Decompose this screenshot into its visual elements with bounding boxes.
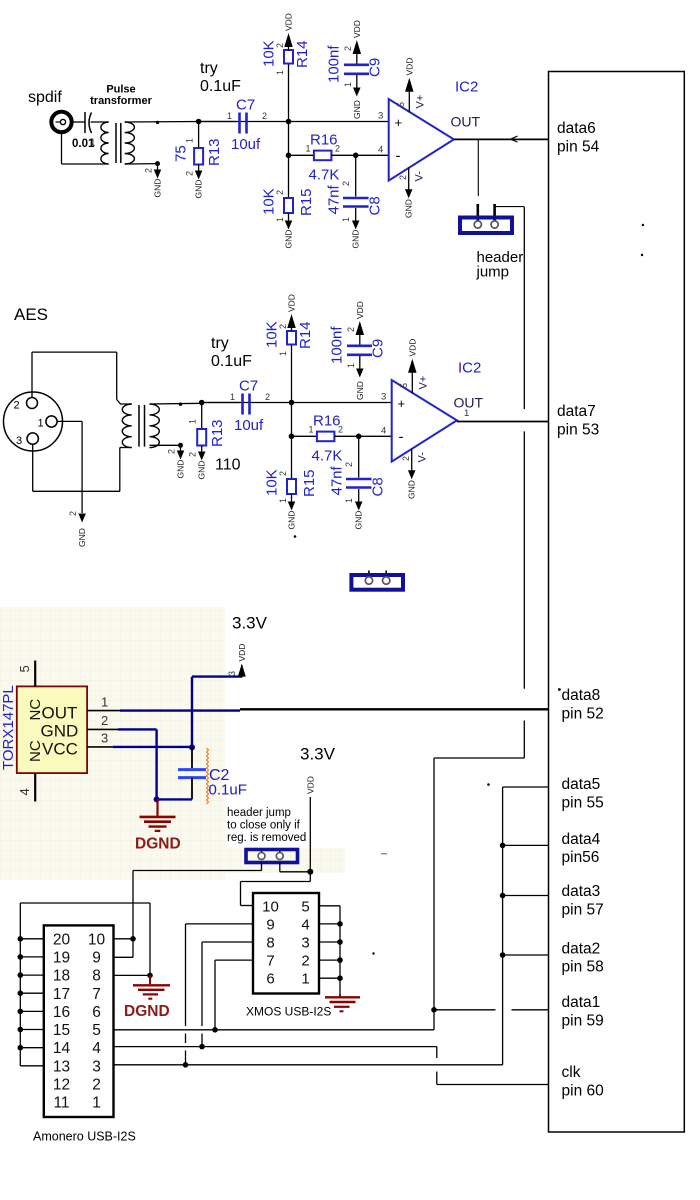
svg-text:VDD: VDD xyxy=(287,294,297,312)
svg-text:C8: C8 xyxy=(367,196,384,215)
svg-text:2: 2 xyxy=(167,449,177,454)
svg-text:try: try xyxy=(211,335,229,352)
svg-text:data3: data3 xyxy=(562,883,601,900)
svg-text:R16: R16 xyxy=(313,413,341,430)
node: data3 junction xyxy=(500,893,506,899)
svg-text:pin 55: pin 55 xyxy=(562,795,604,812)
svg-text:2: 2 xyxy=(144,168,154,173)
svg-text:6: 6 xyxy=(92,1004,101,1021)
svg-text:DGND: DGND xyxy=(135,836,181,853)
wire: left bus to DGND xyxy=(114,903,151,975)
svg-text:IC2: IC2 xyxy=(458,360,481,377)
svg-text:10K: 10K xyxy=(261,188,278,215)
node: R13 tap junction xyxy=(196,119,202,125)
svg-text:4: 4 xyxy=(301,916,309,933)
svg-text:1: 1 xyxy=(346,363,356,368)
wire: header right pin to VDD node xyxy=(280,863,311,872)
svg-text:2: 2 xyxy=(262,111,267,121)
node: XMOS pin9 junction xyxy=(183,1062,189,1068)
wire: Amonero pin5 row to data1 riser xyxy=(114,1029,435,1031)
header jump HDR2 (spare) xyxy=(351,571,403,590)
svg-text:4: 4 xyxy=(17,788,32,795)
resistor R15 10K xyxy=(261,155,316,248)
svg-text:VDD: VDD xyxy=(407,339,417,357)
wire: transformer secondary bottom to GND xyxy=(125,161,163,197)
svg-text:10K: 10K xyxy=(261,40,278,67)
svg-text:OUT: OUT xyxy=(451,114,481,130)
svg-text:VDD: VDD xyxy=(355,301,365,319)
svg-text:4: 4 xyxy=(378,144,383,155)
wire: VDD node to XMOS pin10 xyxy=(241,872,311,906)
svg-text:9: 9 xyxy=(266,916,274,933)
svg-text:GND: GND xyxy=(197,461,207,480)
svg-text:2: 2 xyxy=(335,144,340,154)
svg-text:10uf: 10uf xyxy=(231,136,261,153)
svg-text:GND: GND xyxy=(287,511,297,530)
wire: TORX pin3 VCC to 3.3V xyxy=(87,677,242,748)
svg-text:15: 15 xyxy=(53,1022,70,1039)
svg-text:100nf: 100nf xyxy=(329,326,346,364)
error squiggle (orange) xyxy=(207,748,209,804)
svg-text:C9: C9 xyxy=(370,339,387,358)
svg-text:jump: jump xyxy=(476,264,510,281)
svg-text:VDD: VDD xyxy=(404,58,414,76)
svg-text:4: 4 xyxy=(381,425,386,436)
svg-text:16: 16 xyxy=(53,1004,70,1021)
svg-text:R13: R13 xyxy=(206,138,223,166)
svg-text:7: 7 xyxy=(92,986,101,1003)
svg-text:IC2: IC2 xyxy=(455,79,478,96)
wire: header left pin to Amonero pins 10/9 xyxy=(114,863,262,958)
svg-text:2: 2 xyxy=(338,425,343,435)
svg-text:data4: data4 xyxy=(562,831,601,848)
svg-text:-: - xyxy=(396,148,401,165)
svg-text:14: 14 xyxy=(53,1040,71,1057)
svg-text:5: 5 xyxy=(301,898,309,915)
svg-text:2: 2 xyxy=(401,456,411,461)
svg-text:C7: C7 xyxy=(236,97,255,114)
svg-text:1: 1 xyxy=(275,70,285,75)
RCA connector J1 xyxy=(51,112,71,132)
svg-text:pin 59: pin 59 xyxy=(562,1013,604,1030)
svg-text:3: 3 xyxy=(378,110,383,121)
svg-text:10uf: 10uf xyxy=(234,417,264,434)
svg-text:TORX147PL: TORX147PL xyxy=(0,685,17,770)
wire: RCA ground return xyxy=(62,132,109,164)
svg-text:3: 3 xyxy=(381,391,386,402)
op-amp IC2 xyxy=(381,339,484,499)
svg-text:1: 1 xyxy=(275,217,285,222)
svg-text:10: 10 xyxy=(88,931,106,948)
svg-text:7: 7 xyxy=(266,953,274,970)
svg-text:0.1uF: 0.1uF xyxy=(211,353,252,370)
svg-text:2: 2 xyxy=(343,46,353,51)
wire: C2 bottom to DGND xyxy=(157,798,192,800)
svg-text:+: + xyxy=(398,396,406,411)
svg-text:3: 3 xyxy=(301,935,309,952)
svg-text:C8: C8 xyxy=(370,477,387,496)
svg-text:V+: V+ xyxy=(418,376,430,390)
wire: XMOS pins 1-5 tie to ground xyxy=(319,906,343,995)
svg-text:5: 5 xyxy=(399,383,409,388)
svg-text:pin 54: pin 54 xyxy=(557,139,600,156)
node: VCC/C2 junction xyxy=(189,744,195,750)
svg-text:data5: data5 xyxy=(562,776,601,793)
svg-text:3: 3 xyxy=(16,435,22,447)
wire: XMOS pin8 to Amonero pin4 row xyxy=(202,942,253,1047)
svg-text:GND: GND xyxy=(352,100,362,119)
wire: transformer secondary top xyxy=(125,121,199,124)
ground DGND (Amonero) xyxy=(124,975,170,1020)
svg-text:1: 1 xyxy=(341,217,351,222)
wire: cap to transformer xyxy=(91,121,109,123)
wire: net from spdif header down right side xyxy=(434,207,524,1030)
capacitor C2 0.1uF xyxy=(178,747,247,799)
svg-text:R14: R14 xyxy=(297,321,314,349)
node: R13 tap junction xyxy=(199,400,205,406)
svg-text:R14: R14 xyxy=(294,40,311,68)
svg-text:18: 18 xyxy=(53,968,70,985)
svg-text:8: 8 xyxy=(92,968,101,985)
svg-text:5: 5 xyxy=(17,665,32,672)
svg-text:1: 1 xyxy=(227,111,232,121)
svg-text:2: 2 xyxy=(92,1077,101,1094)
capacitor C7 xyxy=(202,378,270,435)
svg-text:GND: GND xyxy=(351,230,361,249)
ground arrow: XLR shield xyxy=(68,491,87,547)
svg-text:GND: GND xyxy=(354,511,364,530)
svg-text:Pulse: Pulse xyxy=(106,84,135,96)
svg-text:VDD: VDD xyxy=(305,776,315,794)
svg-text:data1: data1 xyxy=(562,994,601,1011)
svg-text:6: 6 xyxy=(266,971,274,988)
resistor R13 75 xyxy=(173,122,224,199)
svg-text:pin56: pin56 xyxy=(562,849,600,866)
svg-text:1: 1 xyxy=(90,138,96,149)
pulse transformer T2 xyxy=(122,404,159,448)
stray marks xyxy=(294,224,644,955)
svg-text:1: 1 xyxy=(188,419,198,424)
wire: op-amp output xyxy=(457,421,549,423)
module U4 XMOS USB-I2S xyxy=(253,893,319,994)
svg-text:3: 3 xyxy=(227,671,237,676)
node: R16/C8 junction xyxy=(356,434,362,440)
wire: data1 to pin 59 xyxy=(434,1009,549,1011)
svg-text:1: 1 xyxy=(306,144,311,154)
wire: XMOS pin9 to Amonero pin3 row xyxy=(186,924,254,1065)
pulse transformer T1 xyxy=(90,122,134,164)
ground DGND (TORX) xyxy=(135,799,181,852)
svg-text:-: - xyxy=(399,429,404,446)
svg-text:R15: R15 xyxy=(301,469,318,497)
svg-text:GND: GND xyxy=(407,480,417,499)
svg-text:GND: GND xyxy=(284,230,294,249)
arrow mark on data6 wire xyxy=(511,136,518,142)
svg-text:2: 2 xyxy=(185,171,195,176)
svg-text:12: 12 xyxy=(53,1077,70,1094)
svg-text:5: 5 xyxy=(92,1022,101,1039)
svg-text:2: 2 xyxy=(68,511,78,516)
resistor R16 4.7K xyxy=(292,413,359,465)
svg-text:17: 17 xyxy=(53,986,70,1003)
svg-text:1: 1 xyxy=(230,392,235,402)
svg-text:0.1uF: 0.1uF xyxy=(209,782,247,799)
svg-text:2: 2 xyxy=(344,462,354,467)
node: R15/R16 junction xyxy=(286,153,292,159)
node: XMOS pin7 junction xyxy=(212,1027,218,1033)
node: VDD/header junction xyxy=(307,869,313,875)
wire: T2 secondary bottom to GND xyxy=(150,443,186,479)
resistor R13 110 xyxy=(188,403,241,480)
svg-text:OUT: OUT xyxy=(42,704,78,723)
wire: XMOS pin7 to Amonero pin5 row xyxy=(215,960,253,1030)
svg-text:VDD: VDD xyxy=(352,20,362,38)
node: XMOS pin8 junction xyxy=(199,1044,205,1050)
svg-text:4.7K: 4.7K xyxy=(312,448,343,465)
svg-text:transformer: transformer xyxy=(90,95,152,107)
svg-text:1: 1 xyxy=(278,351,288,356)
svg-text:3: 3 xyxy=(92,1058,101,1075)
svg-text:3.3V: 3.3V xyxy=(232,614,268,633)
wire: data bus vertical (pins 55-58) xyxy=(114,787,549,1065)
power port VDD 3.3V (header) xyxy=(300,745,336,872)
node: data4 junction xyxy=(500,843,506,849)
svg-text:100nf: 100nf xyxy=(326,45,343,83)
wire: TORX pin2 GND xyxy=(87,729,157,799)
svg-text:C7: C7 xyxy=(239,378,258,395)
svg-text:3: 3 xyxy=(101,731,108,746)
svg-text:1: 1 xyxy=(278,498,288,503)
svg-text:5: 5 xyxy=(396,102,406,107)
svg-text:pin 60: pin 60 xyxy=(562,1083,605,1100)
wire: signal row to op-amp +input xyxy=(202,402,392,404)
node: C7/R14 junction xyxy=(289,400,295,406)
svg-text:pin 57: pin 57 xyxy=(562,902,604,919)
svg-text:0.1uF: 0.1uF xyxy=(200,78,241,95)
svg-text:3.3V: 3.3V xyxy=(300,745,336,764)
node: Amonero pin10 junction xyxy=(130,936,136,942)
module U5 Amonero USB-I2S xyxy=(44,925,114,1117)
svg-text:2: 2 xyxy=(101,713,108,728)
capacitor C9 100nf xyxy=(329,301,387,400)
XLR connector J2 xyxy=(4,392,63,451)
optical receiver U3 TORX147PL xyxy=(0,661,108,802)
svg-text:75: 75 xyxy=(173,145,190,162)
node: Amonero pin8/DGND junction xyxy=(147,973,153,979)
svg-text:110: 110 xyxy=(215,457,241,474)
wire: RCA to series cap xyxy=(72,121,85,123)
svg-text:R13: R13 xyxy=(209,419,226,447)
svg-text:R15: R15 xyxy=(298,188,315,216)
svg-text:GND: GND xyxy=(176,460,186,479)
svg-text:VDD: VDD xyxy=(237,644,247,662)
wire: XLR pin2 to transformer primary top xyxy=(32,352,132,404)
node: R16/C8 junction xyxy=(353,153,359,159)
svg-text:2: 2 xyxy=(398,175,408,180)
svg-text:Amonero USB-I2S: Amonero USB-I2S xyxy=(33,1130,136,1144)
svg-text:to close only if: to close only if xyxy=(227,820,301,832)
svg-text:10K: 10K xyxy=(264,469,281,496)
svg-text:10: 10 xyxy=(262,898,279,915)
svg-text:data6: data6 xyxy=(557,120,596,137)
svg-text:2: 2 xyxy=(265,392,270,402)
svg-text:1: 1 xyxy=(343,82,353,87)
svg-text:19: 19 xyxy=(53,949,70,966)
resistor R15 10K xyxy=(264,436,319,529)
svg-text:data8: data8 xyxy=(562,687,601,704)
svg-text:1: 1 xyxy=(185,138,195,143)
node: data1 junction xyxy=(431,1007,437,1013)
svg-text:11: 11 xyxy=(53,1095,69,1112)
svg-text:R16: R16 xyxy=(310,132,338,149)
series capacitor 0.01 xyxy=(72,112,95,150)
svg-text:V+: V+ xyxy=(415,95,427,109)
node: R15/R16 junction xyxy=(289,434,295,440)
svg-text:8: 8 xyxy=(266,935,274,952)
wire: data4 to pin56 xyxy=(503,844,549,846)
svg-text:try: try xyxy=(200,60,218,77)
capacitor C8 47nf xyxy=(329,436,387,529)
svg-text:2: 2 xyxy=(14,400,20,412)
wire: OUT to header jump xyxy=(478,139,524,221)
svg-text:10K: 10K xyxy=(264,321,281,348)
svg-text:AES: AES xyxy=(14,305,48,324)
header jump HDR3 xyxy=(246,848,298,863)
wire: TORX pin1 OUT to data8 pin 52 xyxy=(87,709,548,710)
svg-text:47nf: 47nf xyxy=(329,465,346,495)
capacitor C7 xyxy=(199,97,267,154)
svg-text:DGND: DGND xyxy=(124,1003,170,1020)
ground (XMOS pins) xyxy=(325,995,360,1012)
capacitor C8 47nf xyxy=(326,155,384,248)
svg-text:47nf: 47nf xyxy=(326,184,343,214)
svg-text:XMOS USB-I2S: XMOS USB-I2S xyxy=(246,1005,331,1019)
svg-text:2: 2 xyxy=(346,327,356,332)
wire: op-amp output xyxy=(454,138,549,140)
IC box (DAC pins 52-60) xyxy=(549,72,685,1133)
svg-text:pin 58: pin 58 xyxy=(562,959,604,976)
wire: data3 to pin 57 xyxy=(503,895,549,897)
svg-text:GND: GND xyxy=(355,381,365,400)
svg-text:1: 1 xyxy=(38,418,44,430)
wire: T2 secondary top xyxy=(150,403,202,406)
svg-text:GND: GND xyxy=(404,199,414,218)
svg-text:VDD: VDD xyxy=(284,13,294,31)
svg-text:C9: C9 xyxy=(367,58,384,77)
wire: to op-amp -input xyxy=(356,154,389,156)
svg-text:GND: GND xyxy=(153,179,163,198)
wire: inverting node xyxy=(288,122,290,156)
svg-text:spdif: spdif xyxy=(28,89,62,106)
svg-text:V-: V- xyxy=(417,452,429,463)
header jump HDR1 xyxy=(460,218,512,234)
svg-text:reg. is removed: reg. is removed xyxy=(227,832,306,844)
svg-text:pin 52: pin 52 xyxy=(562,706,604,723)
label header jump note xyxy=(227,807,306,844)
svg-text:1: 1 xyxy=(309,425,314,435)
svg-text:1: 1 xyxy=(101,695,108,710)
svg-text:+: + xyxy=(395,115,403,130)
svg-text:GND: GND xyxy=(41,722,79,741)
power port VDD 3.3V (TORX) xyxy=(227,614,268,678)
svg-text:2: 2 xyxy=(188,452,198,457)
svg-text:1: 1 xyxy=(464,408,469,419)
svg-text:VCC: VCC xyxy=(42,740,78,759)
node: C7/R14 junction xyxy=(286,119,292,125)
resistor R16 4.7K xyxy=(289,132,356,184)
wire: Amonero left bus pins 20-13 xyxy=(18,903,151,1066)
svg-text:V-: V- xyxy=(414,171,426,182)
svg-text:data2: data2 xyxy=(562,941,601,958)
svg-text:2: 2 xyxy=(341,181,351,186)
svg-text:20: 20 xyxy=(53,931,71,948)
svg-text:4.7K: 4.7K xyxy=(309,167,340,184)
svg-text:GND: GND xyxy=(194,180,204,199)
capacitor C9 100nf xyxy=(326,20,384,119)
svg-text:data7: data7 xyxy=(557,403,596,420)
wire: Amonero pin4 row / clk net xyxy=(114,1047,549,1085)
op-amp IC2 xyxy=(378,58,481,218)
svg-text:pin 53: pin 53 xyxy=(557,422,599,439)
svg-text:GND: GND xyxy=(77,528,87,547)
svg-text:1: 1 xyxy=(92,1095,101,1112)
resistor R14 10K xyxy=(261,13,312,121)
svg-text:4: 4 xyxy=(92,1040,101,1057)
wire: signal row to op-amp +input xyxy=(199,121,389,123)
resistor R14 10K xyxy=(264,294,315,402)
pasted-image pale background with grid xyxy=(0,607,345,880)
svg-text:1: 1 xyxy=(344,498,354,503)
svg-text:9: 9 xyxy=(92,949,101,966)
svg-text:2: 2 xyxy=(301,953,309,970)
svg-text:13: 13 xyxy=(53,1058,70,1075)
svg-text:clk: clk xyxy=(562,1064,581,1081)
node: data2 junction xyxy=(500,952,506,958)
svg-text:header jump: header jump xyxy=(227,807,291,819)
wire: data2 to pin 58 xyxy=(503,954,549,956)
node: DGND junction xyxy=(154,796,160,802)
svg-text:1: 1 xyxy=(301,971,309,988)
wire: XLR pin1/pin3 to transformer primary bottom xyxy=(33,421,132,491)
wire: to op-amp -input xyxy=(359,435,392,437)
wire: inverting node xyxy=(291,403,293,437)
